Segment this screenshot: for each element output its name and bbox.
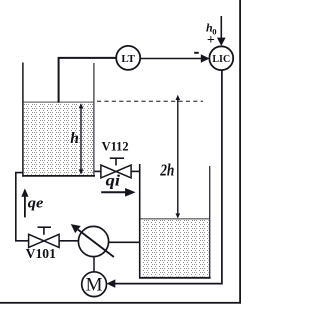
frame right border <box>239 0 241 304</box>
label h0 <box>206 21 216 37</box>
minus sign at LIC input <box>194 52 199 54</box>
svg-text:h: h <box>70 130 79 147</box>
svg-text:V101: V101 <box>26 246 56 261</box>
svg-text:2h: 2h <box>159 161 174 180</box>
flow arrow qe <box>21 188 28 217</box>
valve V101 <box>29 227 79 247</box>
wire: feed pipe into tank T1 <box>16 173 29 241</box>
controller LIC <box>209 46 233 70</box>
tank T2 liquid surface <box>141 218 210 220</box>
pump <box>71 224 114 257</box>
flow arrow qi <box>101 188 135 197</box>
measure arrow 2h between tanks <box>176 95 181 219</box>
wire: signal LT to LIC with arrowhead <box>140 54 209 63</box>
tank T1 liquid fill <box>24 103 93 175</box>
measure arrow h in tank T1 <box>79 103 84 174</box>
motor M <box>82 272 107 297</box>
tank T2 liquid fill <box>141 220 209 277</box>
wire: pump outlet to tank T2 <box>109 241 139 243</box>
tank T1 right wall <box>93 63 95 176</box>
svg-text:qi: qi <box>106 172 121 189</box>
tank T2 right wall <box>209 166 211 278</box>
svg-text:LIC: LIC <box>212 54 230 65</box>
tank T2 left wall <box>139 164 141 279</box>
valve V112 <box>95 158 140 178</box>
tank T1 liquid surface <box>24 101 94 103</box>
wire: level sensing line to LT <box>59 58 117 103</box>
svg-text:+: + <box>207 33 215 48</box>
svg-text:LT: LT <box>121 53 135 65</box>
wire: LIC output down and left to motor with arrowhead <box>107 70 222 288</box>
tank T1 bottom <box>22 175 95 177</box>
dashed reference level line <box>97 100 203 102</box>
tank T1 left wall <box>22 63 24 177</box>
wire: pump to motor <box>93 257 95 272</box>
svg-text:V112: V112 <box>102 138 129 153</box>
transmitter LT <box>116 46 140 70</box>
svg-text:M: M <box>86 275 103 296</box>
tank T2 bottom <box>139 277 211 279</box>
svg-text:qe: qe <box>28 196 44 212</box>
frame bottom border <box>0 302 241 304</box>
node h0 setpoint line with arrowhead <box>217 16 226 46</box>
